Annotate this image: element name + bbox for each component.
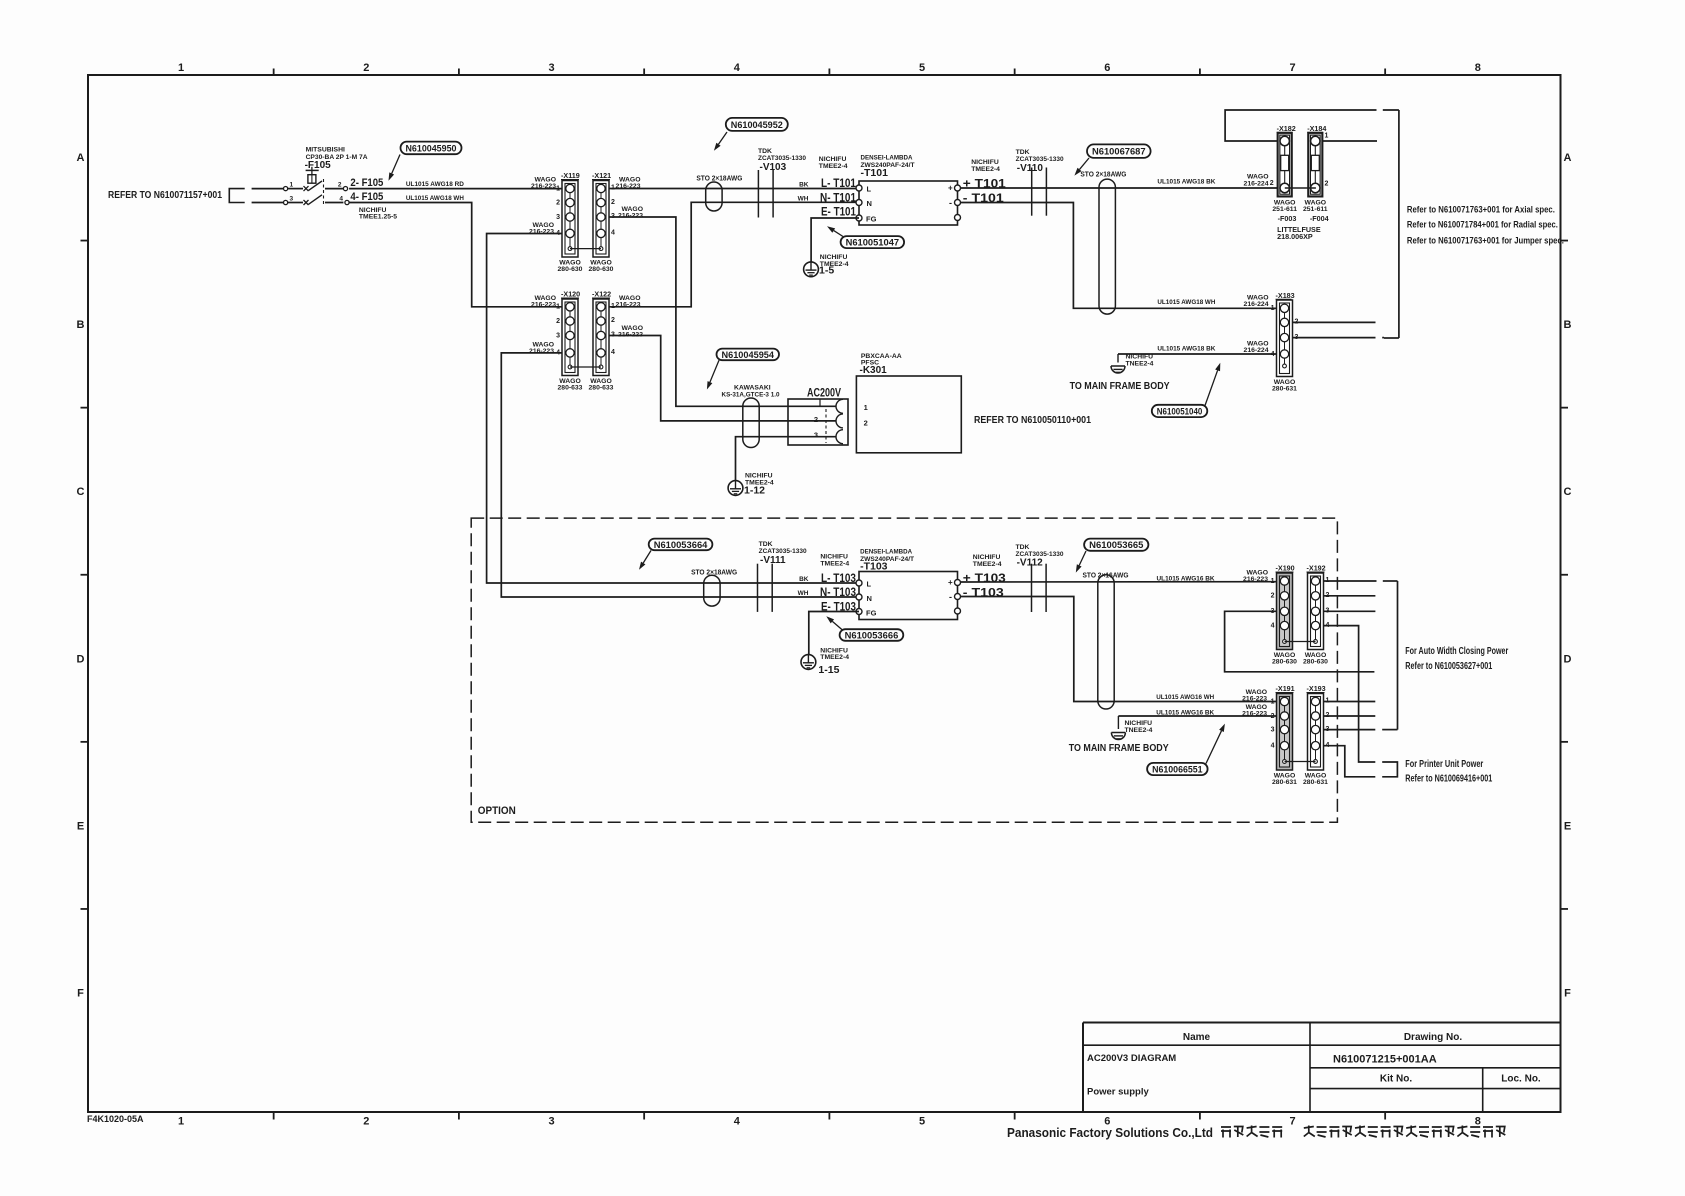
svg-text:TDK: TDK <box>1016 149 1030 156</box>
svg-text:D: D <box>77 653 85 665</box>
svg-text:Refer to N610069416+001: Refer to N610069416+001 <box>1405 773 1492 784</box>
svg-text:N610051040: N610051040 <box>1157 406 1203 417</box>
svg-text:UL1015 AWG18 BK: UL1015 AWG18 BK <box>1157 345 1215 352</box>
svg-text:4: 4 <box>611 349 615 356</box>
svg-text:MITSUBISHI: MITSUBISHI <box>306 147 345 154</box>
svg-text:280-630: 280-630 <box>589 266 614 273</box>
svg-text:280-630: 280-630 <box>1303 659 1328 666</box>
svg-text:B: B <box>1564 319 1572 331</box>
svg-text:3: 3 <box>814 431 818 440</box>
svg-text:216-224: 216-224 <box>1244 180 1269 187</box>
svg-text:280-631: 280-631 <box>1272 386 1297 393</box>
svg-text:Drawing No.: Drawing No. <box>1404 1032 1463 1043</box>
svg-text:L: L <box>867 580 872 589</box>
svg-text:WH: WH <box>798 195 809 202</box>
svg-text:-X191: -X191 <box>1276 684 1295 693</box>
svg-text:2: 2 <box>611 199 615 206</box>
svg-text:UL1015 AWG18 WH: UL1015 AWG18 WH <box>406 195 464 202</box>
svg-text:280-630: 280-630 <box>558 266 583 273</box>
svg-text:E- T101: E- T101 <box>821 207 857 219</box>
svg-text:BK: BK <box>799 576 809 583</box>
svg-text:-X119: -X119 <box>561 171 580 180</box>
svg-text:-: - <box>949 198 952 208</box>
svg-text:N- T101: N- T101 <box>820 193 857 205</box>
svg-text:-F004: -F004 <box>1310 214 1329 223</box>
svg-text:218.006XP: 218.006XP <box>1277 232 1313 241</box>
svg-text:-V112: -V112 <box>1017 558 1044 569</box>
svg-text:WH: WH <box>798 590 809 597</box>
svg-text:280-630: 280-630 <box>1272 659 1297 666</box>
svg-text:2: 2 <box>363 62 369 74</box>
svg-text:280-631: 280-631 <box>1272 779 1297 786</box>
svg-text:4: 4 <box>556 350 560 357</box>
svg-text:N610053664: N610053664 <box>654 540 708 551</box>
svg-text:4: 4 <box>1271 743 1275 750</box>
svg-text:216-223: 216-223 <box>618 213 643 220</box>
svg-text:Refer to N610053627+001: Refer to N610053627+001 <box>1405 661 1492 672</box>
svg-text:216-223: 216-223 <box>529 229 554 236</box>
svg-text:+ T101: + T101 <box>963 178 1007 190</box>
svg-text:C: C <box>77 486 85 498</box>
svg-text:2: 2 <box>814 415 818 424</box>
svg-text:216-223: 216-223 <box>1242 695 1267 702</box>
svg-text:-V110: -V110 <box>1017 163 1044 174</box>
svg-text:4: 4 <box>734 1116 741 1128</box>
svg-text:N610045952: N610045952 <box>731 120 783 131</box>
svg-text:FG: FG <box>866 609 877 618</box>
svg-text:N610051047: N610051047 <box>846 238 900 249</box>
svg-text:E: E <box>77 820 84 832</box>
svg-text:TMEE2-4: TMEE2-4 <box>971 166 1000 173</box>
svg-text:+: + <box>948 184 953 193</box>
svg-text:- T101: - T101 <box>963 193 1005 205</box>
svg-text:-X121: -X121 <box>592 171 611 180</box>
svg-text:1: 1 <box>1271 305 1275 312</box>
svg-text:STO 2×16AWG: STO 2×16AWG <box>1083 572 1130 579</box>
svg-text:280-633: 280-633 <box>558 385 583 392</box>
svg-text:3: 3 <box>1271 726 1275 733</box>
svg-text:N- T103: N- T103 <box>820 587 856 599</box>
svg-text:5: 5 <box>919 62 925 74</box>
svg-text:3: 3 <box>548 62 554 74</box>
svg-text:TMEE2-4: TMEE2-4 <box>820 654 849 661</box>
svg-text:N610053666: N610053666 <box>845 630 899 641</box>
svg-text:C: C <box>1564 486 1572 498</box>
svg-text:N610045950: N610045950 <box>406 143 457 154</box>
svg-text:251-611: 251-611 <box>1303 206 1328 213</box>
svg-text:-F003: -F003 <box>1278 214 1297 223</box>
svg-text:-T103: -T103 <box>860 560 888 572</box>
svg-text:1: 1 <box>290 182 294 189</box>
svg-text:TDK: TDK <box>1016 544 1030 551</box>
svg-text:1: 1 <box>178 62 184 74</box>
svg-text:216-224: 216-224 <box>1244 347 1269 354</box>
svg-text:-X190: -X190 <box>1276 564 1295 573</box>
svg-text:216-223: 216-223 <box>531 302 556 309</box>
svg-text:+: + <box>948 578 953 587</box>
svg-text:-: - <box>949 592 952 602</box>
svg-text:3: 3 <box>556 214 560 221</box>
svg-text:- T103: - T103 <box>963 587 1004 599</box>
svg-text:2: 2 <box>338 182 342 189</box>
svg-text:2: 2 <box>363 1116 369 1128</box>
svg-text:DENSEI-LAMBDA: DENSEI-LAMBDA <box>861 155 913 162</box>
svg-text:N610066551: N610066551 <box>1152 764 1203 775</box>
svg-text:2: 2 <box>556 318 560 325</box>
svg-text:UL1015 AWG16 WH: UL1015 AWG16 WH <box>1156 694 1214 701</box>
svg-text:Power supply: Power supply <box>1087 1087 1149 1098</box>
svg-text:REFER TO N610050110+001: REFER TO N610050110+001 <box>974 414 1091 426</box>
svg-text:1-12: 1-12 <box>744 485 765 497</box>
svg-text:-X122: -X122 <box>592 290 611 299</box>
svg-text:1-5: 1-5 <box>819 265 834 277</box>
svg-text:Refer to N610071784+001 for Ra: Refer to N610071784+001 for Radial spec. <box>1407 220 1558 230</box>
svg-text:4: 4 <box>556 230 560 237</box>
svg-text:216-223: 216-223 <box>1243 576 1268 583</box>
svg-text:216-224: 216-224 <box>1244 301 1269 308</box>
svg-text:1-15: 1-15 <box>818 664 839 676</box>
svg-text:280-631: 280-631 <box>1303 779 1328 786</box>
svg-text:-X192: -X192 <box>1307 564 1326 573</box>
svg-text:+ T103: + T103 <box>963 573 1006 585</box>
svg-text:KS-31A,GTCE-3 1.0: KS-31A,GTCE-3 1.0 <box>722 391 780 398</box>
svg-text:4: 4 <box>734 62 741 74</box>
svg-text:3: 3 <box>290 196 294 203</box>
svg-text:TO MAIN FRAME BODY: TO MAIN FRAME BODY <box>1070 380 1170 392</box>
svg-text:2: 2 <box>556 199 560 206</box>
svg-text:251-611: 251-611 <box>1272 206 1297 213</box>
svg-text:7: 7 <box>1289 1116 1295 1128</box>
svg-text:1: 1 <box>1271 698 1275 705</box>
svg-text:AC200V3 DIAGRAM: AC200V3 DIAGRAM <box>1087 1053 1176 1064</box>
svg-text:4: 4 <box>1271 622 1275 629</box>
svg-text:STO 2×18AWG: STO 2×18AWG <box>696 175 743 182</box>
svg-text:TNEE2-4: TNEE2-4 <box>1126 360 1154 367</box>
svg-text:UL1015 AWG18 WH: UL1015 AWG18 WH <box>1157 299 1215 306</box>
svg-text:TMEE2-4: TMEE2-4 <box>819 163 848 170</box>
svg-text:3: 3 <box>548 1116 554 1128</box>
svg-text:UL1015 AWG18 RD: UL1015 AWG18 RD <box>406 181 464 188</box>
svg-text:FG: FG <box>866 215 877 224</box>
svg-text:Panasonic Factory Solutions Co: Panasonic Factory Solutions Co.,Ltd <box>1007 1126 1213 1140</box>
svg-text:OPTION: OPTION <box>478 805 516 817</box>
svg-text:TMEE2-4: TMEE2-4 <box>973 561 1002 568</box>
svg-text:TNEE2-4: TNEE2-4 <box>1125 727 1153 734</box>
svg-text:2: 2 <box>1325 181 1329 188</box>
svg-text:-X184: -X184 <box>1307 124 1326 133</box>
svg-text:N610053665: N610053665 <box>1089 540 1144 551</box>
svg-text:BK: BK <box>799 181 809 188</box>
svg-text:-T101: -T101 <box>861 167 889 179</box>
svg-text:B: B <box>77 319 85 331</box>
svg-text:STO 2×18AWG: STO 2×18AWG <box>1080 171 1127 178</box>
svg-text:2: 2 <box>611 317 615 324</box>
svg-text:-K301: -K301 <box>860 365 888 376</box>
svg-text:For Auto Width Closing Power: For Auto Width Closing Power <box>1405 646 1508 657</box>
svg-text:For Printer Unit Power: For Printer Unit Power <box>1405 759 1483 770</box>
svg-text:3: 3 <box>556 332 560 339</box>
svg-text:6: 6 <box>1104 62 1110 74</box>
svg-text:-V111: -V111 <box>760 555 786 566</box>
svg-text:2: 2 <box>1271 593 1275 600</box>
svg-text:1: 1 <box>556 185 560 192</box>
svg-text:N610045954: N610045954 <box>722 350 775 361</box>
svg-text:216-223: 216-223 <box>529 348 554 355</box>
svg-text:2- F105: 2- F105 <box>350 177 383 189</box>
svg-text:L- T103: L- T103 <box>821 573 856 585</box>
svg-text:N: N <box>867 594 872 603</box>
svg-text:7: 7 <box>1289 62 1295 74</box>
svg-text:1: 1 <box>1325 133 1329 140</box>
svg-text:N610067687: N610067687 <box>1092 147 1146 158</box>
svg-text:4: 4 <box>339 196 343 203</box>
svg-text:1: 1 <box>556 304 560 311</box>
svg-text:AC200V: AC200V <box>807 388 841 400</box>
svg-text:N: N <box>867 199 872 208</box>
svg-text:E: E <box>1564 820 1571 832</box>
svg-text:Name: Name <box>1183 1032 1211 1043</box>
svg-text:L- T101: L- T101 <box>821 178 857 190</box>
svg-text:D: D <box>1564 653 1572 665</box>
svg-text:4- F105: 4- F105 <box>350 191 383 203</box>
svg-text:Refer to N610071763+001 for Ju: Refer to N610071763+001 for Jumper spec. <box>1407 236 1564 246</box>
svg-text:-X193: -X193 <box>1307 684 1326 693</box>
svg-text:1: 1 <box>1271 578 1275 585</box>
svg-text:8: 8 <box>1475 62 1481 74</box>
svg-text:KAWASAKI: KAWASAKI <box>734 384 771 391</box>
svg-text:UL1015 AWG18 BK: UL1015 AWG18 BK <box>1157 178 1215 185</box>
svg-text:DENSEI-LAMBDA: DENSEI-LAMBDA <box>860 549 912 556</box>
svg-text:A: A <box>1564 152 1572 164</box>
svg-text:TMEE2-4: TMEE2-4 <box>820 561 849 568</box>
svg-text:F: F <box>77 988 84 1000</box>
svg-text:Refer to N610071763+001 for Ax: Refer to N610071763+001 for Axial spec. <box>1407 205 1555 215</box>
svg-text:Loc. No.: Loc. No. <box>1501 1074 1541 1085</box>
svg-text:N610071215+001AA: N610071215+001AA <box>1333 1054 1437 1066</box>
svg-text:2: 2 <box>1270 180 1274 187</box>
svg-text:UL1015 AWG16 BK: UL1015 AWG16 BK <box>1157 575 1215 582</box>
svg-text:4: 4 <box>611 230 615 237</box>
svg-text:F: F <box>1564 988 1571 1000</box>
svg-text:2: 2 <box>864 418 868 427</box>
svg-text:TO MAIN FRAME BODY: TO MAIN FRAME BODY <box>1069 742 1169 754</box>
svg-text:-V103: -V103 <box>760 162 787 173</box>
svg-text:216-223: 216-223 <box>531 183 556 190</box>
svg-text:-X183: -X183 <box>1276 291 1295 300</box>
svg-text:F4K1020-05A: F4K1020-05A <box>87 1114 144 1124</box>
svg-text:280-633: 280-633 <box>589 385 614 392</box>
svg-text:5: 5 <box>919 1116 925 1128</box>
svg-text:TMEE1.25-5: TMEE1.25-5 <box>359 214 397 221</box>
svg-text:1: 1 <box>864 403 868 412</box>
svg-text:-X182: -X182 <box>1277 124 1296 133</box>
svg-text:TDK: TDK <box>759 541 773 548</box>
svg-text:-X120: -X120 <box>561 290 580 299</box>
svg-text:REFER TO N610071157+001: REFER TO N610071157+001 <box>108 189 222 201</box>
svg-text:1: 1 <box>178 1116 184 1128</box>
svg-text:8: 8 <box>1475 1116 1481 1128</box>
svg-text:Kit No.: Kit No. <box>1380 1074 1412 1085</box>
svg-text:-F105: -F105 <box>305 160 332 171</box>
svg-text:TDK: TDK <box>758 148 772 155</box>
svg-text:L: L <box>867 185 872 194</box>
svg-text:A: A <box>77 152 85 164</box>
